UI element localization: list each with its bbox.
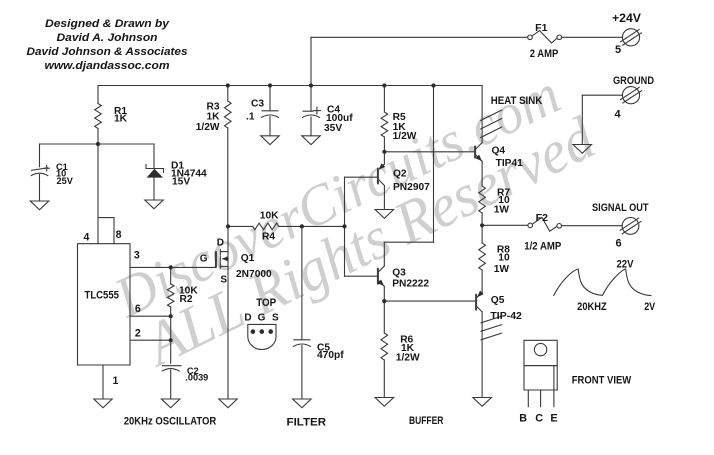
svg-text:Q5: Q5 xyxy=(491,295,505,306)
svg-text:5: 5 xyxy=(615,44,621,56)
svg-text:Designed & Drawn by: Designed & Drawn by xyxy=(45,18,170,30)
svg-text:6: 6 xyxy=(135,303,141,315)
svg-text:8: 8 xyxy=(116,229,122,241)
svg-text:470pf: 470pf xyxy=(317,350,344,361)
svg-text:25V: 25V xyxy=(57,176,74,186)
svg-text:15V: 15V xyxy=(172,176,190,187)
svg-text:F1: F1 xyxy=(535,22,547,34)
svg-text:1/2W: 1/2W xyxy=(196,122,220,133)
svg-text:1: 1 xyxy=(112,375,118,387)
svg-text:2N7000: 2N7000 xyxy=(236,269,272,280)
svg-text:TIP41: TIP41 xyxy=(496,158,524,169)
svg-text:F2: F2 xyxy=(536,212,548,224)
svg-text:.0039: .0039 xyxy=(185,373,208,383)
svg-text:Q3: Q3 xyxy=(392,267,406,278)
svg-text:4: 4 xyxy=(83,231,89,243)
svg-text:.1: .1 xyxy=(246,112,255,123)
svg-text:1K: 1K xyxy=(206,112,220,123)
svg-text:FILTER: FILTER xyxy=(287,417,327,429)
svg-text:2V: 2V xyxy=(644,301,656,313)
svg-text:B: B xyxy=(519,412,527,424)
svg-text:BUFFER: BUFFER xyxy=(409,415,444,427)
svg-text:35V: 35V xyxy=(324,123,342,134)
svg-text:2: 2 xyxy=(135,327,141,339)
svg-text:1W: 1W xyxy=(494,264,510,275)
svg-text:S: S xyxy=(272,313,279,324)
svg-text:1/2W: 1/2W xyxy=(396,352,420,363)
svg-text:1W: 1W xyxy=(494,204,510,215)
svg-text:David Johnson & Associates: David Johnson & Associates xyxy=(27,46,188,58)
svg-text:C3: C3 xyxy=(251,99,264,110)
svg-text:S: S xyxy=(220,274,227,285)
svg-text:10: 10 xyxy=(498,253,510,264)
svg-text:1/2W: 1/2W xyxy=(393,131,417,142)
svg-text:Q1: Q1 xyxy=(241,253,255,264)
svg-text:C: C xyxy=(535,412,543,424)
svg-text:Q4: Q4 xyxy=(492,145,506,156)
svg-text:2 AMP: 2 AMP xyxy=(530,48,559,60)
svg-text:TOP: TOP xyxy=(256,297,276,309)
svg-text:HEAT SINK: HEAT SINK xyxy=(491,95,543,107)
svg-text:20KHZ: 20KHZ xyxy=(577,301,607,313)
svg-text:SIGNAL OUT: SIGNAL OUT xyxy=(592,202,649,214)
svg-text:4: 4 xyxy=(614,109,621,121)
svg-text:22V: 22V xyxy=(617,258,635,270)
svg-text:GROUND: GROUND xyxy=(613,75,654,87)
svg-text:1K: 1K xyxy=(114,113,128,124)
svg-text:TIP-42: TIP-42 xyxy=(490,311,522,322)
svg-text:G: G xyxy=(200,253,208,264)
svg-text:1/2 AMP: 1/2 AMP xyxy=(524,240,561,252)
svg-text:PN2907: PN2907 xyxy=(393,182,430,193)
svg-text:6: 6 xyxy=(615,237,621,249)
svg-text:G: G xyxy=(258,312,266,323)
svg-text:FRONT VIEW: FRONT VIEW xyxy=(572,375,632,387)
svg-text:+24V: +24V xyxy=(612,12,641,25)
svg-text:D: D xyxy=(217,238,224,249)
svg-text:D: D xyxy=(244,313,251,324)
svg-text:TLC555: TLC555 xyxy=(85,290,120,302)
svg-text:E: E xyxy=(550,412,557,424)
svg-text:David A. Johnson: David A. Johnson xyxy=(57,32,158,44)
svg-text:PN2222: PN2222 xyxy=(392,278,429,289)
svg-text:20KHz OSCILLATOR: 20KHz OSCILLATOR xyxy=(124,416,217,428)
svg-text:10K: 10K xyxy=(260,210,279,221)
svg-text:www.djandassoc.com: www.djandassoc.com xyxy=(45,60,170,72)
svg-text:Q2: Q2 xyxy=(393,169,407,180)
svg-text:3: 3 xyxy=(134,249,140,261)
svg-text:R2: R2 xyxy=(180,294,193,305)
svg-text:R4: R4 xyxy=(262,232,275,243)
